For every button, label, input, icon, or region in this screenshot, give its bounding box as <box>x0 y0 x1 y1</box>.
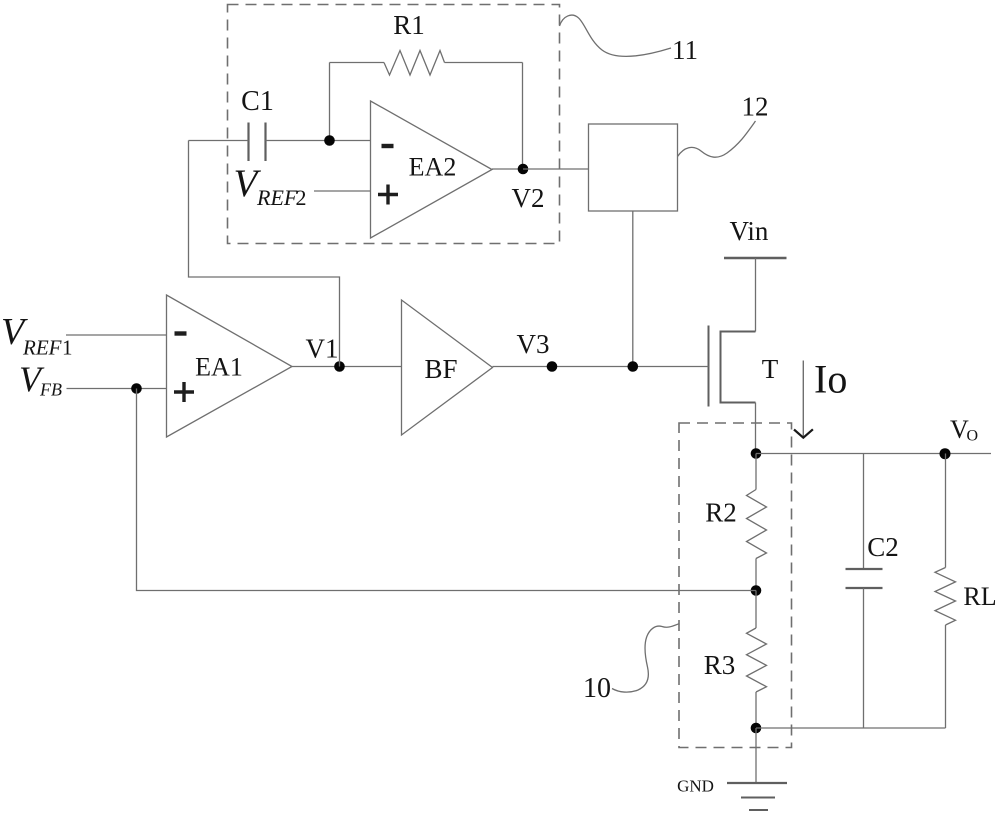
svg-text:Io: Io <box>814 357 847 402</box>
wire Vin to drain <box>755 258 757 332</box>
svg-text:11: 11 <box>672 35 698 65</box>
svg-text:REF: REF <box>22 336 62 360</box>
label VO <box>950 415 978 445</box>
block 12 (modulation block) <box>589 124 678 211</box>
svg-text:EA2: EA2 <box>409 153 457 182</box>
wire node V1 up and over to C1 <box>189 141 340 367</box>
wire EA2 output to node V2 <box>492 168 523 170</box>
wire BF output to transistor gate <box>493 366 709 368</box>
resistor RL <box>935 454 956 729</box>
node: gate control junction <box>628 361 639 372</box>
svg-text:10: 10 <box>583 673 611 704</box>
wire VREF1 to EA1 inverting input <box>66 334 167 336</box>
label VFB <box>19 359 62 400</box>
wire VFB to EA1 non-inverting input <box>67 388 167 390</box>
svg-text:R2: R2 <box>705 498 737 528</box>
wire into C1 left plate <box>189 140 249 142</box>
wire VREF2 to EA2 non-inverting input <box>314 190 371 192</box>
leader squiggle for label 11 <box>560 15 672 56</box>
wire node V2 to block 12 <box>523 168 589 170</box>
node: C1/R1 junction <box>324 135 335 146</box>
svg-text:V2: V2 <box>512 183 545 213</box>
node: output/source junction <box>751 448 762 459</box>
node V3 <box>547 361 558 372</box>
wire junction to EA2 inverting input <box>330 140 371 142</box>
capacitor C1 <box>249 123 266 162</box>
leader squiggle for label 12 <box>678 121 756 157</box>
op-amp EA2 <box>371 101 493 238</box>
svg-text:REF: REF <box>256 185 298 210</box>
capacitor C2 <box>846 454 883 729</box>
node VO <box>940 448 951 459</box>
transistor T (pass MOSFET) <box>709 326 756 407</box>
wire block 12 to control node <box>632 211 634 367</box>
dashed box 11 (compensation module border) <box>228 5 560 244</box>
buffer BF <box>402 300 493 435</box>
resistor R1 <box>330 51 523 170</box>
wire C1 right plate to junction <box>266 140 330 142</box>
svg-text:12: 12 <box>742 92 769 122</box>
svg-text:RL: RL <box>963 582 996 611</box>
svg-text:EA1: EA1 <box>195 353 243 382</box>
svg-text:BF: BF <box>424 354 457 384</box>
svg-text:Vin: Vin <box>730 216 769 246</box>
ground <box>727 783 787 810</box>
node: VFB feedback junction <box>131 383 142 394</box>
dashed box 10 (feedback divider border) <box>679 423 792 748</box>
wire output rail to VO <box>756 453 991 455</box>
svg-text:R1: R1 <box>393 10 425 40</box>
arrow Io (output current) <box>794 361 813 438</box>
svg-text:C1: C1 <box>241 86 274 117</box>
wire feedback from VFB node to divider tap <box>137 389 757 591</box>
node V1 <box>334 361 345 372</box>
wire source to output node <box>755 403 757 454</box>
resistor R2 <box>747 454 767 591</box>
node: bottom rail junction <box>751 723 762 734</box>
leader squiggle for label 10 <box>612 624 680 693</box>
label VREF2 <box>234 162 307 210</box>
node V2 <box>518 164 529 175</box>
wire EA1 output to BF input <box>292 366 402 368</box>
svg-text:C2: C2 <box>867 532 899 562</box>
wire bottom rail <box>756 727 946 729</box>
node: R2/R3 divider tap <box>751 585 762 596</box>
label VREF1 <box>1 311 73 360</box>
op-amp EA1 <box>167 295 293 437</box>
svg-text:O: O <box>967 428 979 445</box>
wire R3 bottom to ground <box>755 728 757 783</box>
svg-text:GND: GND <box>677 777 714 796</box>
svg-text:T: T <box>762 354 779 384</box>
svg-text:1: 1 <box>62 336 73 360</box>
resistor R3 <box>747 591 767 729</box>
Vin supply bar <box>724 257 787 259</box>
svg-text:FB: FB <box>39 380 62 400</box>
svg-text:R3: R3 <box>704 650 736 680</box>
svg-text:V3: V3 <box>517 329 550 359</box>
svg-text:2: 2 <box>296 185 307 210</box>
svg-text:V1: V1 <box>306 334 339 364</box>
